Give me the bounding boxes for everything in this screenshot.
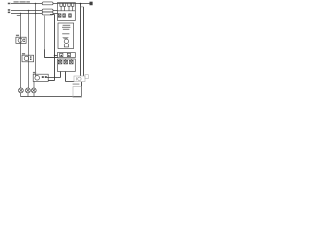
gray optional device (73, 75, 89, 98)
device label text (73, 84, 80, 85)
node dot chain1 on L3 (20, 13, 21, 14)
label L N terminals left (8, 9, 10, 13)
lamp H1 (19, 88, 24, 93)
wire vertical chain3 to lamp box (35, 4, 37, 77)
controller text box U1 (58, 23, 74, 49)
wire vertical chain1 through pump1 to lamp1 (20, 14, 22, 89)
device symbol (78, 77, 81, 80)
lamp box P3 (33, 74, 48, 81)
wire lamp3 stub down (33, 93, 35, 97)
gray enclosure box (73, 87, 82, 98)
node dot chain3 on L3 (35, 13, 36, 14)
node junction dot chain3 on L1 (35, 3, 37, 5)
label PE terminal left (8, 3, 11, 4)
wire L1 bus top (11, 3, 90, 5)
wire device down to bottom bus (81, 82, 83, 97)
terminal box X2 (58, 59, 76, 72)
terminal strip X1 (58, 53, 76, 58)
field wiring thicker (21, 3, 84, 97)
lamp H2 (26, 88, 31, 93)
wire bottom corner to lampbox (48, 80, 54, 82)
wire X2 pin to lampbox (47, 72, 61, 78)
wire lamp2 stub down (27, 93, 29, 97)
node dot chain2 on L2 (28, 10, 30, 12)
breaker F1 (42, 2, 53, 5)
wire stub y15.5 (17, 15, 21, 17)
pump P2 (22, 55, 34, 62)
wire X2 pin to device (66, 72, 75, 82)
breaker F2 (42, 9, 53, 12)
wire pair into strip (45, 56, 58, 58)
squiggle mark in U1 (63, 36, 69, 39)
wire bottom bus (21, 96, 82, 98)
device side box (85, 75, 88, 79)
title text Swico power supply (14, 1, 30, 2)
label lamp box (33, 72, 36, 73)
wire lamp1 stub down (20, 93, 22, 97)
wire lampbox down to lamp3 (33, 81, 35, 88)
node dot top right branch (80, 3, 82, 5)
wire branch over to x83.5 (81, 6, 84, 8)
wire L2 bus (11, 10, 58, 12)
wire vertical right x80.5 (80, 4, 82, 77)
right column unit (58, 3, 76, 72)
pump P1 (16, 37, 26, 43)
lamp icon in U1 (64, 39, 68, 43)
terminal square top right (90, 2, 93, 5)
wire vertical right x83.5 (83, 7, 85, 76)
lamp H3 (31, 88, 36, 93)
wire breaker2 exit corner down (50, 15, 55, 81)
relay box K1 (58, 3, 76, 21)
device gray box (74, 76, 85, 82)
wire vertical chain2 through pump2 to lamp2 (28, 11, 30, 89)
label pump2 (22, 53, 25, 54)
label pump1 (16, 35, 19, 36)
wire L3 bus (11, 13, 58, 15)
wire vertical x44.5 (44, 16, 46, 50)
node dot on x54.5 wire (54, 55, 55, 56)
